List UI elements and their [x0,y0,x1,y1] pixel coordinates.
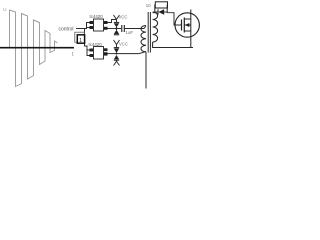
resistor R1 body [155,2,167,8]
secondary top lead [153,12,155,14]
wire [86,23,88,29]
diode D1 [114,23,119,27]
mosfet Q1 body stub w arrow [184,24,191,26]
node lower junction [116,53,118,55]
mosfet Q1 source stub [184,31,191,48]
time axis [0,47,74,49]
R1/D5 left bar [154,5,156,14]
U1 input link wires [85,23,91,29]
primary return wire down [145,52,147,89]
svg-text:tc4420: tc4420 [90,14,104,19]
diode D2 bar [114,34,119,36]
wire [87,50,90,56]
node upper junction [116,28,118,30]
capacitor C1 1uF wire [117,28,122,30]
diode D5 [158,9,164,15]
U2 output wire [108,53,117,55]
diode D4 bar [114,59,119,61]
svg-text:VCC: VCC [119,42,128,47]
U2 right pin pads [104,48,108,51]
diode D4 [114,55,119,59]
wire cap to transformer [124,26,146,29]
gate wire to mosfet [167,13,181,25]
connector JP1 pin block [77,35,84,43]
mosfet Q1 source/body link [190,19,192,31]
mosfet Q1 drain stub [184,10,191,20]
transformer T1 primary winding [141,26,146,52]
VCC arrow upper [114,15,120,19]
diode D3 bar [114,47,119,49]
waveform U(t) damped sawtooth [10,10,58,87]
mosfet Q1 gate bar [181,20,183,31]
gnd arrow lower [116,60,118,61]
svg-text:control: control [59,27,74,33]
U1 output wire [108,28,117,30]
transformer core [147,12,149,53]
U2 input link wires [87,49,90,51]
U1 left pin pads [90,21,94,24]
svg-text:t: t [72,52,74,58]
wire U2 out to transformer [117,52,147,54]
R1/D5 right bar [166,5,168,14]
diode D3 [114,48,119,53]
mosfet Q1 circle [175,13,199,37]
diode D1 bar [114,21,119,23]
svg-text:U: U [3,7,7,13]
svg-text:10: 10 [146,3,151,8]
capacitor C1 plates [121,25,123,32]
wire control to junction [76,28,85,30]
svg-text:VCC: VCC [119,15,128,20]
mosfet Q1 channel bar [183,18,185,33]
diode D5 wire [164,11,167,13]
wire [116,27,118,30]
secondary bottom lead wire [153,42,193,48]
IC U2 body [94,47,104,60]
U2 left pin pads [90,49,94,52]
transformer T1 secondary winding [153,12,158,42]
diode D2 [114,30,119,34]
VCC arrow lower [114,40,120,45]
svg-text:1: 1 [79,38,82,44]
svg-text:tc4420: tc4420 [89,42,103,47]
IC U1 body [94,19,104,31]
wire control vertical [85,29,88,51]
U1 right pin pads [104,21,108,24]
wire [87,27,91,29]
diode D5 wire [155,11,158,13]
U1 VDD wire [108,20,117,23]
diode D5 bar [157,9,159,15]
connector JP1 box [75,32,85,42]
svg-text:1uF: 1uF [126,30,134,35]
